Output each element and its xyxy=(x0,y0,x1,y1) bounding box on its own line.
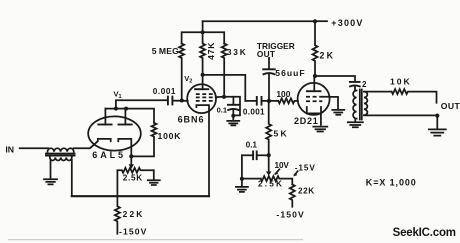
ground pot right xyxy=(236,187,248,192)
node grid junction xyxy=(180,99,184,103)
wire IN to transformer T1 xyxy=(20,147,48,149)
transformer T1 primary winding xyxy=(48,148,74,152)
anode 2D21 xyxy=(313,76,315,91)
node cathode junction xyxy=(129,154,133,158)
svg-text:0.001: 0.001 xyxy=(243,107,265,116)
wire T1 secondary left to ground xyxy=(50,160,52,178)
svg-text:22K: 22K xyxy=(298,187,315,196)
grid dashes 6BN6 row3 xyxy=(196,100,213,102)
svg-text:OUT: OUT xyxy=(441,101,460,111)
tube V1 6AL5 envelope xyxy=(88,116,141,150)
wire rail up to 6BN6 cathode xyxy=(208,111,210,196)
grid dashes 6BN6 row2 xyxy=(196,96,218,98)
wire plate tie bar xyxy=(105,109,154,123)
ground output xyxy=(429,129,446,135)
svg-text:0.001: 0.001 xyxy=(153,87,176,96)
resistor 33K xyxy=(222,44,227,97)
svg-text:-150V: -150V xyxy=(276,210,304,220)
anode bar 6BN6 xyxy=(195,88,208,90)
svg-text:100: 100 xyxy=(276,89,290,99)
svg-text:5K: 5K xyxy=(274,129,289,139)
node tie bar dot xyxy=(201,30,205,34)
wire plate to output cap xyxy=(315,76,355,81)
potentiometer 2.5K right xyxy=(261,176,293,184)
transformer T2 secondary xyxy=(364,92,368,116)
svg-text:6AL5: 6AL5 xyxy=(92,150,126,160)
tube V2 6BN6 envelope xyxy=(187,84,216,113)
cathode 6BN6 xyxy=(196,105,209,111)
grid dashes 2D21 row2 xyxy=(306,100,322,102)
wire wiper arrow to pot 2.5K xyxy=(130,156,132,164)
svg-text:5: 5 xyxy=(152,46,157,56)
wire wiper arrow to pot 2.5K right xyxy=(268,155,270,171)
wire shield grid to ground xyxy=(322,97,338,109)
node plate junction dots xyxy=(114,107,118,111)
svg-text:100K: 100K xyxy=(158,131,182,141)
wire 6BN6 grid2 to 33K node xyxy=(216,97,240,116)
wire junction up to 5MEG xyxy=(181,58,183,100)
capacitor 56uuF xyxy=(268,58,270,69)
resistor 10K xyxy=(392,89,437,103)
svg-text:-150V: -150V xyxy=(119,226,147,236)
grid dashes 6BN6 row1 xyxy=(196,93,213,95)
wire bottom rail xyxy=(72,195,209,197)
svg-text:6BN6: 6BN6 xyxy=(178,114,205,124)
tube 2D21 envelope xyxy=(298,83,330,115)
svg-text:SeekIC.com: SeekIC.com xyxy=(393,227,456,239)
svg-text:2: 2 xyxy=(362,80,367,89)
svg-text:0.1: 0.1 xyxy=(246,140,258,149)
wire cap down to ground / pot left xyxy=(242,155,261,178)
scan streak xyxy=(8,239,303,241)
ground 2D21 cathode xyxy=(313,127,327,132)
resistor 22K right xyxy=(290,184,295,206)
capacitor 2 xyxy=(350,81,360,83)
ground 0.1 cap xyxy=(227,121,239,126)
wire 6BN6 plate to coupling cap 2 xyxy=(203,75,246,101)
svg-text:56uuF: 56uuF xyxy=(275,68,305,78)
node output ground xyxy=(435,114,439,118)
svg-text:2D21: 2D21 xyxy=(294,116,318,126)
svg-text:2.5K: 2.5K xyxy=(258,180,284,189)
resistor 5MEG xyxy=(179,44,184,58)
node grid2 xyxy=(222,95,226,99)
tube V1 right cathode xyxy=(118,139,131,157)
svg-text:33K: 33K xyxy=(227,47,248,57)
tube V1 left cathode xyxy=(74,139,111,148)
wire T1 secondary right down to bottom rail xyxy=(71,160,73,196)
wire pot left to rail xyxy=(116,170,118,196)
svg-text:+300V: +300V xyxy=(331,18,363,28)
wire secondary bottom xyxy=(365,114,437,116)
transformer T1 secondary winding xyxy=(50,157,72,160)
svg-text:22K: 22K xyxy=(123,209,145,219)
cathode 2D21 xyxy=(307,107,321,113)
resistor 100 xyxy=(278,98,298,103)
transformer T2 primary xyxy=(353,91,357,119)
wire secondary top to 10K xyxy=(365,91,392,93)
ground shield xyxy=(332,110,344,115)
svg-text:2.5K: 2.5K xyxy=(123,174,143,183)
potentiometer 2.5K xyxy=(117,168,153,180)
resistor 5K xyxy=(266,101,271,155)
wire cap to 6BN6 grid xyxy=(173,100,188,102)
ground T2 primary xyxy=(348,122,363,127)
tube V1 left plate xyxy=(98,124,111,126)
svg-text:10K: 10K xyxy=(390,77,412,87)
capacitor 0.1 at 6BN6 xyxy=(232,97,234,105)
ground pot 2.5K xyxy=(148,180,160,185)
wire V1 plates up to coupling cap xyxy=(116,100,168,108)
svg-text:47K: 47K xyxy=(206,42,216,60)
capacitor 0.1 lower xyxy=(242,154,253,156)
wire 6BN6 plate column (rail to anode) xyxy=(200,21,205,89)
node 2D21 grid junction xyxy=(267,99,271,103)
svg-text:10V: 10V xyxy=(275,161,290,170)
resistor 100K xyxy=(131,123,156,157)
wire top supply rail xyxy=(203,20,315,22)
node anode dot xyxy=(201,73,205,77)
node 2D21 plate xyxy=(313,74,317,78)
svg-text:K=X 1,000: K=X 1,000 xyxy=(366,177,417,187)
capacitor 0.001 to 2D21 xyxy=(257,97,262,105)
transformer T1 core xyxy=(46,154,75,156)
svg-text:OUT: OUT xyxy=(257,49,275,59)
wire resistor tie bar xyxy=(182,32,225,43)
grid dashes 2D21 row1 xyxy=(306,96,322,98)
tube V1 right plate xyxy=(119,124,132,126)
svg-text:2K: 2K xyxy=(320,51,336,61)
svg-text:0.1: 0.1 xyxy=(217,106,227,115)
resistor 22K left xyxy=(115,196,120,234)
svg-text:MEG: MEG xyxy=(159,46,179,56)
capacitor 0.001 input xyxy=(168,97,173,105)
resistor 2K xyxy=(313,21,318,76)
svg-text:IN: IN xyxy=(5,144,14,154)
transformer T2 core xyxy=(360,90,362,120)
ground T1 xyxy=(44,179,57,184)
node +300V xyxy=(313,19,317,23)
node 0.1 junction xyxy=(267,153,271,157)
